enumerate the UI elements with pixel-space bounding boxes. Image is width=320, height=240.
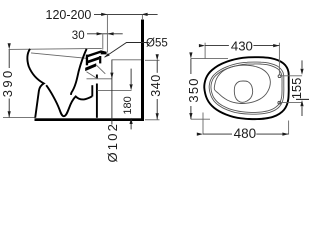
dim 180 line lower tail with up arrow	[130, 124, 132, 129]
toilet side outline: front profile	[27, 49, 43, 118]
line A: spigot bottom line	[87, 78, 113, 80]
dim 480 left extension	[202, 113, 204, 135]
svg-text:430: 430	[231, 39, 253, 54]
toilet side: middle bar B2	[86, 57, 99, 64]
toilet side: outlet channel line 1	[96, 65, 105, 74]
toilet side: pedestal back edge	[96, 75, 98, 80]
dim 350 bottom tick	[191, 118, 210, 120]
toilet side: trap wave	[46, 85, 92, 116]
dim 480 right extension	[288, 121, 290, 135]
svg-text:480: 480	[234, 126, 257, 141]
toilet side: spigot end vertical bar	[99, 56, 101, 63]
svg-text:350: 350	[186, 77, 201, 102]
top view: fixing hole 2	[278, 101, 281, 104]
side view: rim top line / 390 top extension	[9, 48, 102, 49]
O55 leader line with arrow	[105, 43, 149, 58]
dim 155 upper tail with down arrow	[301, 60, 303, 68]
svg-text:Ø102: Ø102	[105, 122, 120, 163]
dim 120-200 line with outside arrows	[94, 13, 158, 15]
svg-text:180: 180	[122, 96, 134, 114]
hole 1 leader line	[281, 75, 302, 77]
top view: inner rim line 1	[209, 62, 284, 114]
dim 180 line upper tail with down arrow	[130, 69, 132, 84]
side view: floor extension line left	[3, 117, 35, 119]
dim 155 lower tail with up arrow	[301, 106, 303, 116]
svg-text:120-200: 120-200	[46, 8, 92, 22]
dim 155 bottom tick	[296, 98, 309, 100]
side view: wall line	[141, 20, 144, 122]
dim 430 left tick/extension	[204, 43, 206, 59]
toilet side: spigot end step	[101, 50, 107, 54]
top view: fixing hole 1	[278, 75, 281, 78]
toilet side: inner bowl back curve	[71, 49, 87, 95]
dim 480 line with arrows	[203, 133, 289, 135]
dim 390 vertical line with arrows	[8, 49, 10, 117]
top view: sump hole	[234, 81, 252, 102]
dim 430 right extension to hole 1	[278, 43, 280, 75]
svg-text:Ø55: Ø55	[146, 38, 168, 50]
toilet side: back top bar B1	[86, 50, 101, 57]
spigot centreline extension to wall	[112, 59, 142, 61]
dim 340 line with arrows	[156, 61, 158, 120]
side view: rim underside line	[31, 53, 87, 58]
hole 2 leader line	[281, 101, 302, 103]
dim 430 line with arrows	[205, 45, 279, 47]
dim 340 bottom tick	[145, 119, 160, 121]
O102 leader vertical line with down arrow	[111, 60, 113, 125]
svg-text:390: 390	[0, 68, 15, 97]
extension line x=107.4	[106, 14, 108, 52]
svg-text:155: 155	[289, 78, 304, 100]
line B: 180 top boundary line	[97, 89, 131, 91]
dim 350 top tick	[191, 58, 228, 60]
toilet side: trap back vertical bar	[91, 85, 93, 96]
top view: outer egg outline	[204, 57, 288, 119]
svg-text:30: 30	[72, 30, 85, 42]
top view: bowl opening oval	[214, 65, 270, 103]
dim 340 top tick	[145, 59, 160, 61]
dim 350 line with arrows	[190, 59, 192, 120]
toilet side: lower bar B3	[85, 63, 96, 71]
top view: inner rim line 2	[211, 64, 282, 112]
svg-text:340: 340	[149, 74, 163, 96]
toilet side: outlet channel line 2	[87, 72, 98, 79]
extension line x=102.8	[102, 34, 104, 50]
extension line x=142.4 (wall top tie)	[141, 14, 143, 20]
toilet side: back stem bar	[86, 55, 88, 66]
side view: floor line	[35, 118, 145, 121]
dim 30 line with outside arrows	[87, 33, 123, 35]
